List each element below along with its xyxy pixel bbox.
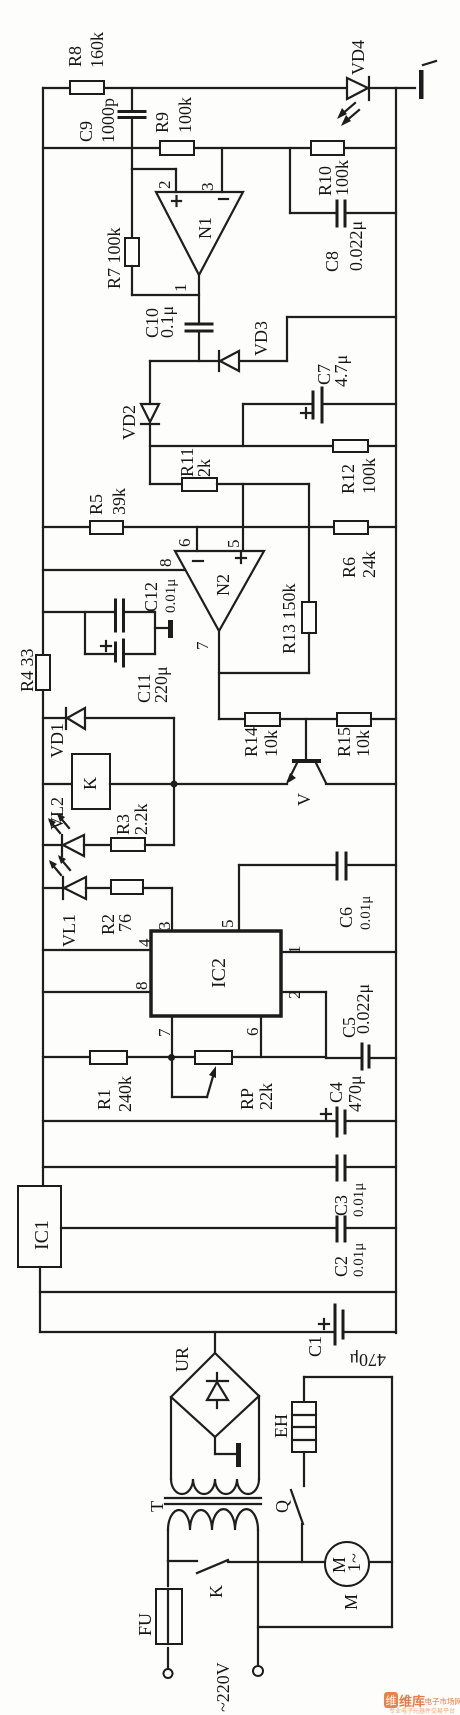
svg-text:C9: C9 [76, 121, 96, 142]
svg-text:VD4: VD4 [348, 40, 368, 75]
transistor V [305, 719, 307, 759]
resistor R8 [70, 81, 104, 94]
svg-text:UR: UR [172, 1347, 192, 1372]
svg-text:R15: R15 [334, 727, 354, 757]
svg-text:24k: 24k [359, 551, 379, 578]
svg-text:R13 150k: R13 150k [279, 583, 299, 654]
VD4 light arrows [337, 103, 359, 126]
svg-text:470μ: 470μ [349, 1350, 386, 1370]
N1 pin 2 [132, 168, 176, 170]
wire bus y=148 [43, 147, 311, 149]
wire left rail x=43 [42, 88, 44, 655]
svg-text:R8: R8 [65, 46, 85, 67]
svg-text:470μ: 470μ [345, 1075, 365, 1112]
svg-text:C4: C4 [326, 1082, 346, 1103]
svg-text:IC1: IC1 [31, 1220, 53, 1250]
svg-text:220μ: 220μ [151, 666, 171, 703]
svg-text:K: K [206, 1585, 226, 1598]
N2 pin 8 [43, 569, 185, 571]
svg-text:0.01μ: 0.01μ [358, 896, 374, 930]
LED VL1 [43, 887, 63, 889]
svg-text:0.01μ: 0.01μ [163, 579, 179, 613]
svg-text:C8: C8 [322, 251, 342, 272]
diode VD1 [43, 717, 66, 719]
IC2 pin 2 [281, 991, 326, 993]
svg-text:2: 2 [285, 991, 304, 1000]
wire R5 bus y=527 [43, 526, 90, 528]
capacitor C3 [336, 1156, 339, 1180]
resistor R14 [219, 718, 245, 720]
wire VD3 row y=361 [150, 360, 218, 362]
wire right rail x=396 [395, 88, 397, 1333]
wire R12 row y=446 [150, 445, 333, 447]
capacitor C10 [198, 275, 200, 323]
IC2 pin 7 lead [171, 1016, 173, 1057]
svg-text:C2: C2 [331, 1256, 351, 1277]
svg-text:VD1: VD1 [47, 723, 67, 758]
IC1 [18, 1186, 61, 1267]
wire R13 column x=309 [308, 484, 310, 602]
diode VD3 [218, 351, 220, 371]
wire y=1627 row [258, 1626, 392, 1628]
node (junction dot R1/RP/pin7) [168, 1054, 175, 1061]
svg-text:5: 5 [224, 540, 243, 549]
diode VD2 [149, 361, 151, 404]
svg-text:0.022μ: 0.022μ [353, 984, 373, 1034]
svg-text:0.1μ: 0.1μ [157, 306, 177, 338]
svg-text:C12: C12 [141, 582, 161, 612]
svg-text:RP: RP [237, 1088, 257, 1110]
terminal (left) [164, 1669, 173, 1678]
wire bus y=1228 [61, 1227, 335, 1229]
svg-text:1~: 1~ [344, 1553, 364, 1572]
svg-text:10k: 10k [353, 730, 373, 757]
wire bus y=1121 [43, 1120, 335, 1122]
svg-text:N2: N2 [213, 574, 233, 596]
bridge diode [216, 1373, 218, 1408]
resistor R11 [150, 483, 182, 485]
wire bus y=1167 [43, 1166, 335, 1168]
op-amp N1 [156, 192, 243, 275]
wire N2 pin5 lead [242, 484, 244, 551]
resistor R2 [111, 880, 143, 894]
svg-text:7: 7 [155, 1028, 174, 1037]
capacitor C11 [84, 612, 86, 654]
svg-text:76: 76 [115, 914, 135, 932]
svg-text:3: 3 [198, 183, 217, 192]
svg-text:R9: R9 [152, 112, 172, 133]
wire bridge AC legs [170, 1397, 172, 1479]
resistor R1 [43, 1056, 90, 1058]
resistor R5 [90, 521, 123, 534]
svg-text:VL1: VL1 [59, 914, 79, 947]
IC2 pin 3 lead [171, 888, 173, 931]
svg-text:M: M [341, 1594, 361, 1610]
heater EH [304, 1376, 392, 1378]
svg-text:维: 维 [386, 1695, 397, 1708]
svg-text:R4 33: R4 33 [17, 648, 37, 692]
resistor R9 [160, 141, 194, 155]
svg-text:100k: 100k [332, 160, 352, 196]
LED VL2 [43, 844, 62, 846]
svg-text:2.2k: 2.2k [131, 804, 151, 836]
IC2 pin 1 [281, 951, 396, 953]
switch Q [291, 1490, 303, 1524]
wire x=174 column [173, 718, 175, 845]
svg-text:1: 1 [285, 946, 304, 955]
svg-text:1000p: 1000p [98, 98, 118, 143]
resistor R12 [333, 440, 368, 452]
svg-text:VD3: VD3 [251, 321, 271, 356]
svg-text:T: T [147, 1501, 167, 1512]
svg-text:3: 3 [155, 922, 174, 931]
wire IC1 bottom lead [39, 1267, 41, 1332]
IC2 pin 5 [238, 865, 240, 931]
capacitor C1 [334, 1305, 337, 1344]
resistor R6 [334, 521, 368, 534]
svg-text:~220V: ~220V [213, 1662, 233, 1712]
ground (top right) [419, 70, 424, 99]
fuse FU [167, 1561, 169, 1586]
IC2 pin 8 [43, 991, 151, 993]
resistor R3 [111, 838, 145, 851]
ground (bridge minus) [214, 1437, 216, 1454]
bridge rectifier UR [214, 1332, 216, 1353]
svg-text:C1: C1 [305, 1336, 325, 1357]
svg-text:R1: R1 [94, 1089, 114, 1110]
watermark logo [384, 1692, 460, 1715]
node (junction dot) [171, 781, 178, 788]
terminal (right) [253, 1666, 263, 1676]
svg-text:10k: 10k [261, 730, 281, 757]
svg-text:C6: C6 [336, 907, 356, 928]
svg-text:EH: EH [271, 1414, 291, 1438]
wire pin5 row [239, 864, 336, 866]
svg-text:4: 4 [135, 938, 154, 947]
IC2 pin 4 [43, 949, 151, 951]
svg-text:160k: 160k [87, 32, 107, 68]
svg-text:6: 6 [175, 539, 194, 548]
svg-text:0.01μ: 0.01μ [351, 1243, 367, 1277]
capacitor C2 [336, 1217, 339, 1241]
resistor R7 [131, 169, 133, 238]
svg-text:K: K [80, 777, 100, 790]
svg-text:R5: R5 [86, 494, 106, 515]
wire right column x=392 [391, 1377, 393, 1627]
resistor R15 [337, 713, 371, 726]
N1 pin 3 [221, 148, 223, 192]
svg-text:N1: N1 [195, 217, 215, 239]
wire bus y=1332 [40, 1331, 334, 1333]
svg-text:6: 6 [243, 1028, 262, 1037]
capacitor C4 [336, 1108, 339, 1136]
wire bus y=1292 [40, 1291, 396, 1293]
resistor R10 [311, 141, 344, 155]
svg-text:22k: 22k [256, 1083, 276, 1110]
transformer core [165, 1497, 261, 1499]
wire emitter row [174, 783, 287, 785]
svg-text:R7 100k: R7 100k [104, 227, 124, 289]
capacitor C7 [243, 403, 312, 405]
svg-text:R14: R14 [241, 727, 261, 757]
capacitor C12 [43, 611, 114, 613]
svg-text:C3: C3 [331, 1195, 351, 1216]
IC2 pin 6 lead [260, 1016, 262, 1057]
svg-text:维库: 维库 [399, 1694, 425, 1709]
svg-text:100k: 100k [359, 458, 379, 494]
svg-text:240k: 240k [115, 1076, 135, 1112]
svg-text:IC2: IC2 [208, 958, 230, 988]
transformer T secondary [171, 1479, 259, 1494]
capacitor C8 [289, 148, 291, 213]
svg-text:7: 7 [193, 641, 212, 650]
svg-text:V: V [294, 793, 314, 806]
switch K [168, 1560, 197, 1562]
svg-text:R6: R6 [339, 557, 359, 578]
resistor R13 [302, 602, 316, 633]
svg-text:5: 5 [218, 920, 237, 929]
svg-text:0.01μ: 0.01μ [351, 1183, 367, 1217]
svg-text:VD2: VD2 [119, 405, 139, 440]
svg-text:2k: 2k [194, 459, 214, 477]
potentiometer RP [195, 1051, 232, 1064]
svg-text:2: 2 [155, 181, 174, 190]
svg-text:1: 1 [171, 284, 190, 293]
svg-text:FU: FU [135, 1613, 155, 1636]
wire top rail y=88 [43, 87, 347, 89]
op-amp N2 [175, 551, 264, 631]
svg-text:Q: Q [272, 1500, 292, 1513]
svg-text:39k: 39k [109, 488, 129, 515]
transformer T primary [168, 1509, 258, 1530]
capacitor C9 [131, 88, 133, 110]
capacitor C5 [326, 1057, 360, 1059]
svg-text:R3: R3 [113, 814, 133, 835]
N2 pin 7 output [218, 631, 220, 719]
capacitor C6 [336, 853, 339, 879]
svg-text:R12: R12 [338, 464, 358, 494]
svg-text:8: 8 [132, 982, 151, 991]
IC2 [151, 931, 281, 1016]
svg-text:100k: 100k [175, 97, 195, 133]
resistor R4 [36, 655, 50, 690]
svg-text:0.022μ: 0.022μ [346, 221, 366, 271]
motor M [325, 1542, 369, 1586]
LED VD4 [347, 78, 368, 99]
svg-text:电子市场网: 电子市场网 [425, 1696, 460, 1706]
svg-text:专业电子元器件交易平台: 专业电子元器件交易平台 [389, 1707, 455, 1715]
svg-text:8: 8 [156, 559, 175, 568]
relay K [43, 783, 72, 785]
wire motor row y=1562 [228, 1561, 325, 1563]
svg-text:4.7μ: 4.7μ [331, 355, 351, 387]
svg-text:VL2: VL2 [47, 797, 67, 830]
ground (C11/C12) [154, 612, 156, 654]
N2 pin 6 [196, 527, 198, 551]
